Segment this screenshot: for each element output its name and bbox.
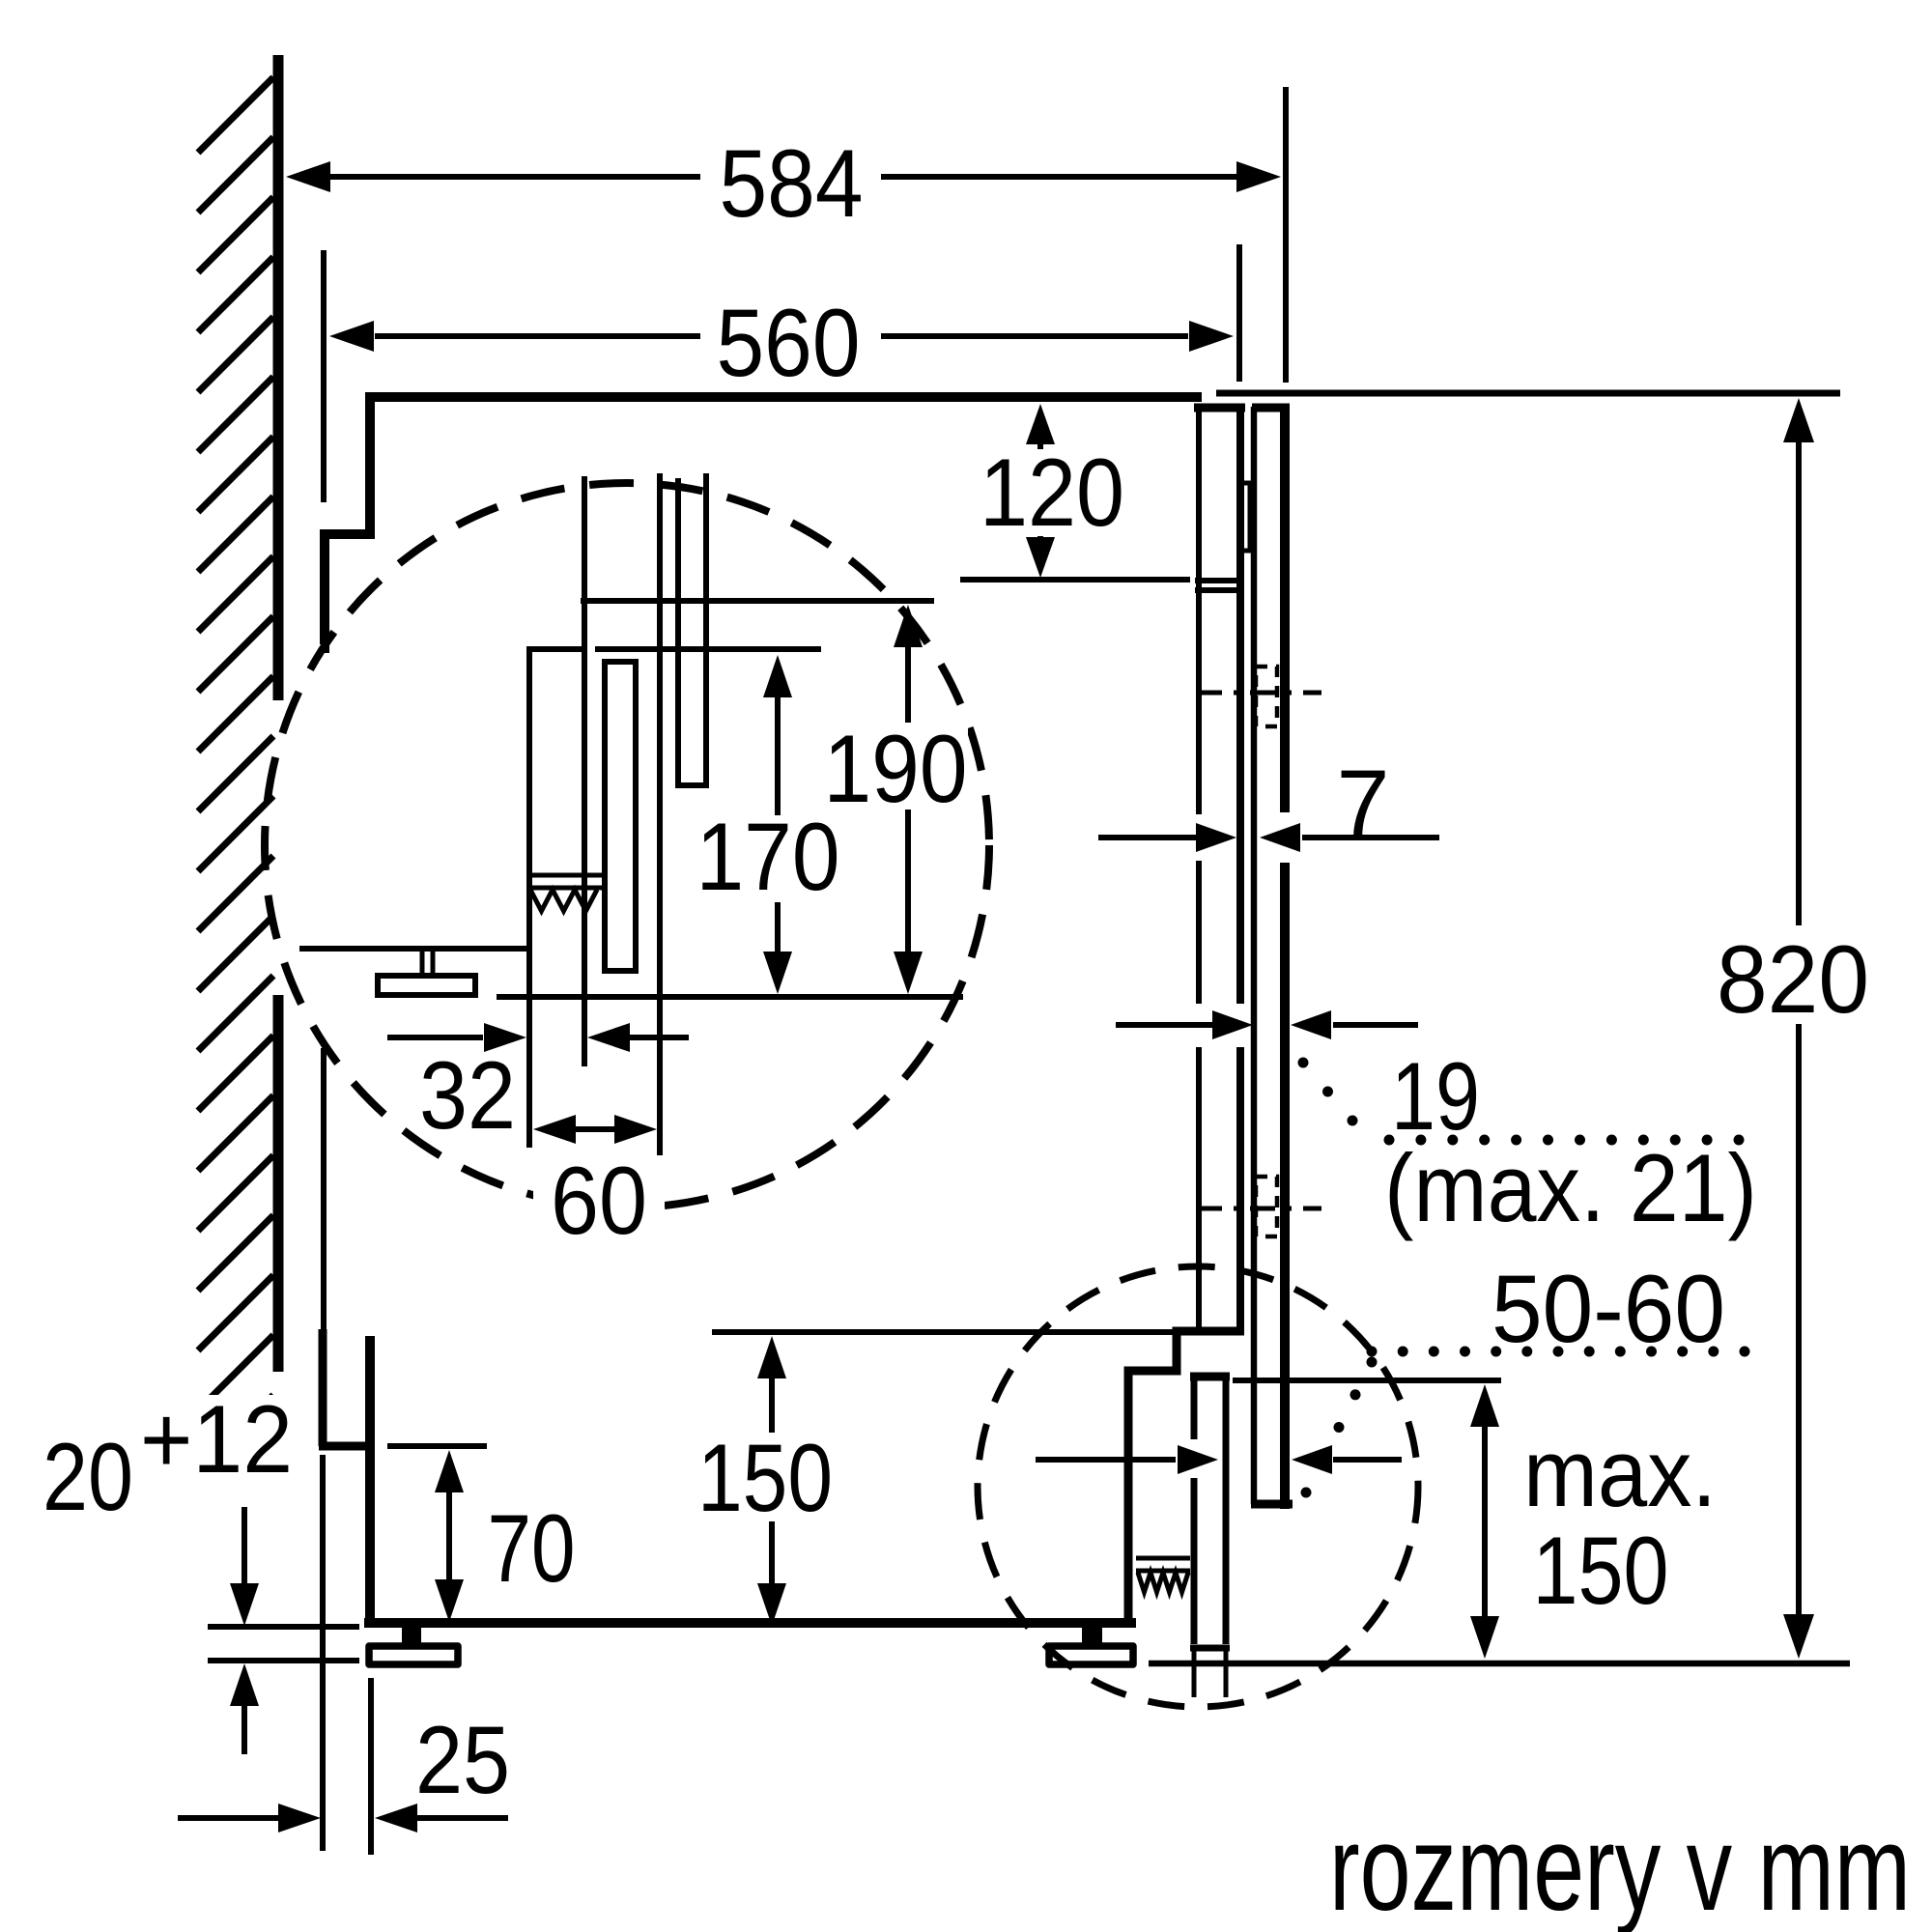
panel divider upper [1195,578,1244,583]
floor level left [208,1658,359,1663]
extension line 25 left [320,1455,326,1851]
reference line max150 [1233,1378,1501,1383]
appliance bottom [364,1618,1136,1628]
drum foot [378,951,475,995]
hose loop [678,473,706,785]
front frame top cap [1194,404,1245,412]
dimension 7 [1098,750,1439,857]
svg-text:120: 120 [980,439,1124,546]
reference line 150 [712,1329,1173,1335]
wall hatching [198,77,273,1470]
rear channel edge V0 [526,646,532,1148]
dimension 120 [976,404,1128,578]
svg-text:60: 60 [551,1147,647,1254]
svg-text:(max. 21): (max. 21) [1384,1134,1757,1241]
dimension 190 [823,605,968,994]
leveling foot left [369,1628,458,1664]
svg-text:25: 25 [415,1706,510,1813]
dimension 50-60 arrows [1036,1445,1402,1474]
svg-text:32: 32 [419,1041,516,1149]
front bottom step [1128,1331,1244,1623]
extension line 560 left [321,250,327,502]
drum circle lowered position (dashed) [978,1266,1418,1707]
drum support line H3 [299,946,529,952]
rear edge lower (thin) [324,639,327,1333]
bottom reference line [497,994,963,1000]
drain hose rectangle [605,662,636,971]
plinth board [1190,1377,1230,1697]
extension line 584 right [1283,87,1289,383]
front frame right column [1236,407,1244,1329]
floor line right [1149,1661,1850,1667]
panel divider lower [1195,587,1244,593]
dimension 560 [329,289,1234,396]
front frame left column [1196,407,1202,1329]
furniture door top cap [1252,404,1290,412]
hose clamp upper [527,875,604,911]
machine bottom level left [208,1624,359,1630]
appliance left edge upper [365,392,375,534]
extension line 560 right [1236,244,1242,382]
latch tab [1240,483,1250,551]
svg-text:20: 20 [43,1423,133,1530]
dimension 170 [694,655,840,994]
wall [273,55,284,1372]
leader dots 19 [1298,1058,1745,1146]
hinge axis lower (dash-dot) [1197,1207,1321,1211]
dimension 19 [1116,1010,1418,1039]
bottom rear step [319,1442,374,1451]
hinge axis upper (dash-dot) [1197,691,1321,696]
power cord line V2 [657,473,663,1158]
bottom left edge [365,1336,375,1628]
reference line 170 (H2) [526,646,821,652]
dimension 25 [178,1706,510,1833]
svg-text:50-60: 50-60 [1492,1255,1725,1362]
dimension 20+12 arrows [230,1507,259,1754]
dimension 150 [691,1336,839,1626]
rear notch [325,534,375,644]
dimension 32 [387,1023,689,1149]
reference line 190 (H1) [581,598,934,604]
label 20+12 [39,1385,299,1530]
svg-text:820: 820 [1717,925,1869,1033]
furniture door front edge [1280,404,1290,1509]
rear recess left wall [319,1329,327,1446]
svg-text:70: 70 [488,1494,576,1602]
furniture door bottom cap [1251,1500,1293,1509]
dimension 60 [533,1115,665,1254]
svg-text:584: 584 [720,129,864,237]
svg-text:170: 170 [696,803,840,910]
svg-text:150: 150 [1533,1517,1669,1624]
inlet hose line V1 [582,476,587,1066]
dimension 70 [435,1450,576,1622]
hose clamp lower [1136,1558,1190,1592]
furniture door rear edge [1251,407,1258,1504]
extension line 25 right [368,1678,374,1855]
reference line 120 [960,577,1190,582]
dimension 820 [1716,398,1882,1659]
dimension 584 [286,129,1281,237]
svg-text:150: 150 [697,1424,833,1531]
hinge cup upper (dashed) [1256,667,1277,726]
svg-text:rozmery v mm: rozmery v mm [1329,1802,1911,1932]
svg-text:560: 560 [717,289,861,396]
leveling foot right [1049,1628,1133,1664]
svg-text:+12: +12 [140,1385,293,1492]
svg-text:max.: max. [1523,1419,1717,1526]
svg-text:190: 190 [824,715,968,822]
appliance top [365,392,1202,402]
drum circle upper position (dashed) [265,483,989,1207]
countertop line [1216,390,1840,397]
dimension max 150 [1470,1384,1717,1659]
reference line 70 [387,1443,487,1449]
leader dots 50-60 [1301,1347,1750,1498]
svg-text:7: 7 [1337,750,1390,857]
hinge cup lower (dashed) [1256,1177,1277,1236]
